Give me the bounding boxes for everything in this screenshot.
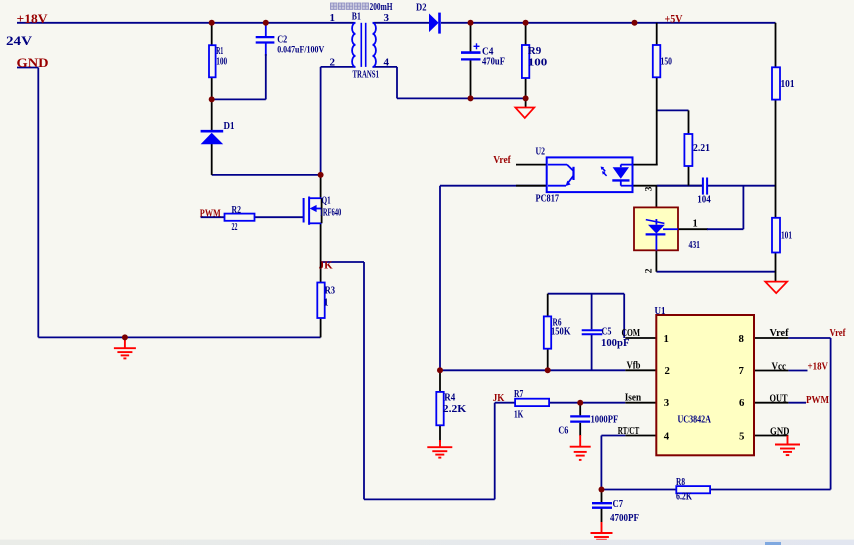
svg-text:PC817: PC817 — [536, 194, 560, 205]
svg-text:104: 104 — [697, 194, 711, 206]
svg-text:100: 100 — [528, 57, 548, 69]
svg-text:RT/CT: RT/CT — [618, 426, 640, 437]
svg-text:1000PF: 1000PF — [591, 415, 619, 426]
svg-text:8: 8 — [739, 333, 745, 345]
svg-text:150K: 150K — [551, 326, 571, 338]
svg-text:3: 3 — [644, 186, 654, 191]
svg-text:100: 100 — [216, 56, 227, 68]
svg-text:R4: R4 — [444, 392, 455, 404]
svg-text:C5: C5 — [602, 326, 612, 338]
svg-text:Q1: Q1 — [322, 196, 331, 207]
svg-text:101: 101 — [781, 230, 792, 242]
svg-text:R7: R7 — [514, 389, 523, 400]
svg-text:TRANS1: TRANS1 — [353, 69, 380, 81]
svg-text:3: 3 — [384, 12, 390, 24]
svg-text:+18V: +18V — [17, 12, 48, 26]
svg-text:2.2K: 2.2K — [443, 403, 467, 415]
svg-text:GND: GND — [17, 56, 49, 70]
svg-text:2: 2 — [330, 56, 336, 68]
svg-text:R9: R9 — [528, 45, 542, 57]
svg-text:4: 4 — [384, 56, 390, 68]
svg-text:22: 22 — [232, 222, 238, 233]
svg-text:Vref: Vref — [830, 327, 846, 339]
svg-text:Vref: Vref — [493, 155, 511, 166]
svg-text:UC3842A: UC3842A — [678, 413, 712, 425]
svg-text:1: 1 — [330, 12, 336, 24]
svg-text:1: 1 — [693, 219, 698, 230]
svg-text:1: 1 — [664, 333, 669, 345]
svg-text:C6: C6 — [558, 425, 568, 436]
svg-text:+18V: +18V — [808, 360, 829, 372]
svg-text:D1: D1 — [224, 120, 235, 132]
svg-text:R8: R8 — [676, 477, 685, 488]
svg-text:431: 431 — [689, 239, 701, 251]
svg-text:B1: B1 — [352, 11, 361, 23]
svg-text:JK: JK — [493, 393, 505, 404]
svg-text:U2: U2 — [536, 146, 546, 158]
svg-text:PWM: PWM — [200, 209, 221, 220]
svg-text:150: 150 — [661, 56, 673, 68]
svg-text:101: 101 — [781, 78, 795, 90]
svg-text:+5V: +5V — [665, 13, 684, 25]
svg-text:Vcc: Vcc — [772, 360, 787, 372]
svg-text:PWM: PWM — [806, 394, 829, 406]
svg-text:4: 4 — [664, 431, 670, 443]
svg-text:R2: R2 — [232, 205, 242, 216]
svg-text:D2: D2 — [416, 2, 427, 14]
svg-text:3: 3 — [664, 397, 670, 409]
svg-text:Vfb: Vfb — [627, 361, 641, 372]
svg-text:C2: C2 — [277, 33, 287, 45]
svg-text:GND: GND — [770, 425, 790, 437]
svg-text:C7: C7 — [613, 498, 624, 510]
svg-text:IRF640: IRF640 — [320, 208, 341, 219]
svg-text:5: 5 — [739, 431, 744, 443]
svg-text:0.047uF/100V: 0.047uF/100V — [277, 46, 324, 56]
svg-text:Vref: Vref — [770, 327, 789, 339]
svg-text:470uF: 470uF — [482, 56, 505, 68]
svg-text:OUT: OUT — [770, 393, 788, 405]
svg-text:7: 7 — [739, 365, 745, 377]
svg-text:U1: U1 — [655, 305, 666, 317]
svg-text:6: 6 — [739, 397, 745, 409]
svg-text:4700PF: 4700PF — [610, 512, 639, 524]
svg-text:2.21: 2.21 — [693, 142, 710, 154]
svg-text:1K: 1K — [514, 410, 524, 421]
svg-text:200mH: 200mH — [370, 1, 393, 13]
svg-text:R3: R3 — [325, 286, 336, 297]
svg-text:2: 2 — [665, 365, 670, 377]
svg-text:6.2K: 6.2K — [676, 492, 693, 503]
svg-text:COM: COM — [622, 328, 641, 339]
svg-text:24V: 24V — [6, 34, 32, 48]
svg-text:Isen: Isen — [625, 393, 642, 404]
svg-text:JK: JK — [319, 260, 334, 271]
svg-text:1: 1 — [324, 297, 329, 308]
svg-text:2: 2 — [644, 268, 654, 273]
